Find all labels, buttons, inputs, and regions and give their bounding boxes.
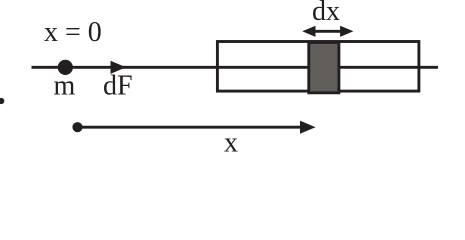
node start dot of x distance arrow <box>72 122 82 132</box>
arrowhead x distance arrow <box>300 121 316 134</box>
node point mass m (filled dot) <box>58 60 73 75</box>
shaded mass element dx <box>309 42 339 92</box>
double-headed arrow dx width <box>302 26 353 37</box>
stray dot at left edge <box>0 98 4 104</box>
svg-text:x = 0: x = 0 <box>44 17 102 48</box>
wire x distance arrow line <box>78 126 304 129</box>
svg-text:m: m <box>54 71 76 102</box>
svg-text:dx: dx <box>312 0 340 27</box>
wire main axis line <box>32 66 439 69</box>
rod rectangle <box>217 42 419 92</box>
arrowhead dF force arrow <box>111 61 127 74</box>
svg-text:dF: dF <box>103 71 133 102</box>
svg-text:x: x <box>224 128 238 159</box>
